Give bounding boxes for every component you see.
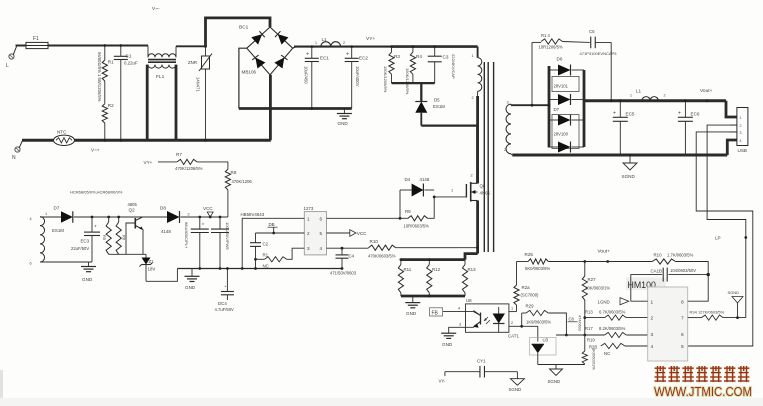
wire opto anode up (509, 311, 517, 313)
svg-text:NTC: NTC (57, 130, 67, 135)
shunt regulator U3 TL431 (522, 325, 538, 327)
resistor R9 gate (399, 217, 402, 220)
wire Vout to connector (726, 101, 737, 117)
ground SGND output (629, 155, 631, 163)
svg-text:C2: C2 (263, 242, 269, 247)
svg-text:*: * (202, 223, 204, 229)
svg-text:1: 1 (472, 54, 474, 58)
wire pin6 gate drive (327, 217, 401, 219)
svg-text:28V100: 28V100 (554, 132, 569, 137)
svg-text:1273: 1273 (304, 206, 314, 211)
resistor R1 (104, 46, 106, 61)
connector USB (737, 108, 748, 146)
svg-text:4: 4 (320, 246, 323, 251)
wire thick top loop to bridge (206, 18, 271, 47)
svg-text:2: 2 (307, 231, 310, 236)
capacitor EC4 68u (198, 216, 201, 219)
inductor L1 input (321, 42, 341, 47)
svg-text:+: + (678, 111, 681, 117)
svg-text:GND: GND (338, 121, 349, 126)
svg-text:MB106: MB106 (242, 70, 257, 75)
wire data line D- to feedback (688, 132, 753, 346)
svg-text:471P3100EVNCAP5: 471P3100EVNCAP5 (580, 51, 618, 56)
svg-text:4: 4 (30, 217, 32, 221)
wire secondary ground bus (512, 154, 727, 157)
svg-text:R17: R17 (585, 326, 593, 331)
transistor Q8 MOSFET 4N65 (465, 184, 467, 198)
svg-text:EC1: EC1 (320, 56, 329, 61)
diode D5 ES1M clamp (415, 102, 427, 113)
wire data line D+ to feedback (707, 125, 746, 318)
resistor R13 (462, 265, 467, 293)
ground GND sense (412, 296, 414, 303)
svg-text:R29: R29 (526, 304, 535, 309)
svg-text:U8: U8 (466, 298, 472, 303)
svg-text:471/50V/0603: 471/50V/0603 (330, 271, 357, 276)
wire sense bottom bus (401, 295, 465, 298)
wire sense top bus (401, 258, 465, 261)
svg-text:*: * (95, 225, 97, 231)
svg-text:R13: R13 (468, 267, 477, 272)
ground GND aux (88, 262, 90, 267)
svg-text:C4: C4 (349, 254, 355, 259)
svg-text:R7: R7 (176, 152, 182, 157)
svg-text:R2a: R2a (522, 285, 531, 290)
svg-text:6: 6 (320, 216, 323, 221)
svg-text:104/0603/50V: 104/0603/50V (670, 268, 696, 273)
capacitor EC6 (684, 99, 687, 102)
wire rectifier anode bus (548, 66, 551, 148)
svg-text:4N65: 4N65 (480, 191, 491, 196)
svg-text:VY+: VY+ (366, 36, 375, 42)
svg-text:470K/1206: 470K/1206 (232, 179, 253, 184)
svg-text:D7: D7 (54, 206, 60, 211)
svg-text:7: 7 (681, 316, 684, 322)
svg-text:R25: R25 (525, 252, 534, 257)
svg-text:D5: D5 (434, 98, 440, 103)
svg-text:R8: R8 (231, 170, 237, 175)
resistor R27 (583, 260, 586, 263)
svg-text:SGND: SGND (622, 174, 636, 179)
svg-text:HB58V4643: HB58V4643 (241, 212, 265, 217)
svg-text:22uF/50V: 22uF/50V (71, 246, 89, 251)
wire DC+ rail (293, 47, 296, 49)
svg-text:150K/1206/5%: 150K/1206/5% (383, 66, 388, 93)
capacitor C2 comp (255, 233, 257, 243)
ground GND opto (449, 327, 466, 333)
svg-text:VCC: VCC (203, 206, 213, 211)
wire opto anode to R26 (516, 305, 518, 312)
wire R5 R6 base node (109, 253, 146, 255)
svg-text:R11: R11 (404, 267, 412, 272)
terminal L (9, 54, 14, 59)
capacitor EC3 (91, 216, 94, 219)
svg-text:Z1: Z1 (149, 259, 155, 264)
wire gate (434, 196, 466, 198)
wire drain (476, 126, 479, 184)
svg-text:VY+: VY+ (144, 160, 153, 165)
svg-text:D7: D7 (554, 107, 560, 112)
transformer T1 core (483, 62, 485, 252)
svg-text:R1: R1 (263, 253, 269, 258)
svg-text:56/50Ω/5% 1 5W/1206/5%: 56/50Ω/5% 1 5W/1206/5% (97, 52, 102, 102)
svg-text:2: 2 (511, 321, 513, 325)
svg-text:R13: R13 (585, 310, 593, 315)
svg-text:NC: NC (263, 263, 269, 268)
svg-text:Vout+: Vout+ (700, 88, 713, 94)
svg-text:3: 3 (740, 131, 742, 135)
resistor R10 CS filter (369, 245, 396, 250)
resistor R10 feedback upper (652, 259, 675, 264)
svg-text:CAT1: CAT1 (508, 334, 519, 339)
svg-text:D6: D6 (557, 57, 563, 62)
svg-text:10uF/400V: 10uF/400V (355, 66, 360, 87)
svg-text:2: 2 (471, 174, 473, 178)
ground SGND TL431 (555, 365, 557, 370)
wire opto cathode out (509, 325, 522, 327)
svg-text:USB: USB (738, 148, 747, 153)
svg-text:10R/0603/5%: 10R/0603/5% (404, 224, 430, 229)
svg-text:R10: R10 (370, 239, 379, 244)
svg-text:1: 1 (630, 94, 632, 98)
zener Z1 18V (142, 258, 151, 265)
transformer T1 primary winding (477, 47, 479, 58)
svg-text:+: + (306, 52, 309, 58)
svg-text:SGND: SGND (548, 379, 561, 384)
wire comp to divider (566, 334, 584, 336)
svg-text:GND: GND (82, 277, 93, 282)
capacitor C5 secondary snubber (563, 41, 590, 44)
svg-text:474/0603: 474/0603 (578, 315, 582, 331)
diode output rectifier 3 (549, 119, 558, 121)
optocoupler U8 (466, 304, 509, 332)
svg-text:BC1: BC1 (239, 25, 249, 31)
wire pin2 (256, 232, 305, 234)
wire U3 anode to SGND (538, 364, 585, 366)
svg-text:5K0/0603/5%: 5K0/0603/5% (525, 266, 550, 271)
svg-text:2: 2 (740, 124, 742, 128)
red watermark line 1 (655, 366, 750, 382)
resistor R4 (412, 45, 415, 48)
svg-text:FL1: FL1 (156, 74, 165, 80)
svg-text:2: 2 (343, 41, 345, 45)
resistor R28 lower divider (584, 335, 586, 351)
resistor R6 (117, 216, 120, 219)
svg-text:ZNR: ZNR (188, 60, 197, 65)
capacitor C1 (120, 46, 122, 57)
capacitor EC1 (310, 45, 313, 48)
diode D4 4148 gate (399, 190, 401, 218)
svg-text:R5: R5 (102, 235, 107, 241)
svg-text:3: 3 (651, 332, 654, 338)
diode D6 output rectifier 1 (549, 69, 558, 71)
resistor R8 startup (227, 162, 229, 169)
svg-text:14N471: 14N471 (196, 77, 201, 92)
inductor L1 output (642, 97, 658, 101)
svg-text:L1: L1 (636, 89, 642, 94)
svg-text:8: 8 (681, 300, 684, 306)
svg-text:10uF/450: 10uF/450 (304, 66, 309, 84)
svg-text:2: 2 (651, 316, 654, 322)
svg-text:68U/400C/PL+: 68U/400C/PL+ (184, 222, 189, 249)
svg-text:1: 1 (651, 300, 654, 306)
svg-text:LP: LP (715, 236, 721, 241)
svg-text:EC6: EC6 (691, 112, 700, 117)
svg-text:4: 4 (651, 344, 654, 350)
svg-text:8.2K/0603/5%: 8.2K/0603/5% (599, 326, 626, 331)
svg-text:3: 3 (507, 101, 509, 105)
wire pin1 to ground (242, 218, 304, 268)
wire rectifier cathode bus (583, 70, 586, 147)
svg-text:R9: R9 (405, 209, 411, 214)
svg-text:6: 6 (30, 262, 32, 266)
ground GND primary (191, 269, 193, 277)
svg-text:R4: R4 (416, 54, 422, 59)
resistor R26 (514, 285, 519, 305)
svg-text:150K/1206/5%: 150K/1206/5% (405, 68, 410, 95)
resistor R12 (428, 258, 431, 261)
IC HM100 (626, 278, 666, 291)
svg-text:R1: R1 (108, 60, 114, 65)
diode output rectifier 4 (549, 146, 558, 148)
wire pin1 with 1GND flag (631, 300, 648, 302)
svg-text:ES1M: ES1M (433, 104, 445, 109)
wire AC top bus left (16, 45, 149, 47)
svg-text:2: 2 (472, 96, 474, 100)
svg-text:1: 1 (307, 216, 310, 221)
svg-text:+: + (346, 52, 349, 58)
svg-text:1K9/0603/5%: 1K9/0603/5% (526, 320, 551, 325)
svg-text:1.7K/0603/5%: 1.7K/0603/5% (667, 253, 694, 258)
svg-text:470K/0603/5%: 470K/0603/5% (368, 254, 396, 259)
capacitor C3 (433, 45, 436, 48)
svg-text:R12: R12 (432, 267, 441, 272)
resistor R11 (400, 258, 403, 261)
svg-text:10K/0603/1%: 10K/0603/1% (585, 286, 610, 291)
svg-text:2: 2 (504, 148, 506, 152)
wire pin4 CS row (327, 247, 369, 249)
svg-text:6: 6 (681, 332, 684, 338)
svg-text:1: 1 (511, 307, 513, 311)
svg-text:Vout+: Vout+ (598, 249, 611, 255)
node divider FB2 (583, 316, 586, 319)
svg-text:SGND: SGND (509, 387, 522, 392)
wire source to sense (476, 201, 479, 254)
svg-text:VY-: VY- (439, 379, 446, 384)
resistor R3 (390, 45, 393, 48)
svg-text:D4: D4 (405, 177, 411, 182)
wire Z1 to ground bus (146, 269, 177, 282)
svg-text:*: * (225, 285, 227, 290)
bridge rectifier BC1 MB106 (247, 27, 293, 75)
resistor R5 (107, 216, 110, 219)
svg-text:100U/50V/PW5: 100U/50V/PW5 (225, 222, 230, 250)
wire switch node (421, 124, 477, 126)
capacitor EC4 4.7uF (226, 269, 228, 289)
varistor ZNR (204, 45, 207, 48)
svg-text:4.7uF/50V: 4.7uF/50V (215, 307, 235, 312)
diode D8 4148 (167, 211, 180, 223)
wire pin5 VCC flag (327, 232, 350, 234)
node divider FB3 (583, 334, 586, 337)
svg-text:R3: R3 (394, 54, 400, 59)
svg-text:2: 2 (188, 213, 190, 217)
wire aux top rail (40, 216, 61, 218)
svg-text:4: 4 (740, 139, 742, 143)
svg-text:18V: 18V (148, 267, 156, 272)
wire U3 ref (556, 334, 585, 336)
svg-text:1: 1 (740, 116, 742, 120)
wire primary ground bus (177, 268, 343, 270)
wire aux bottom (40, 261, 92, 263)
svg-text:1: 1 (45, 212, 47, 216)
wire FB to opto (443, 311, 466, 313)
svg-text:DB: DB (269, 222, 275, 227)
svg-text:HCR68/05/9%,HCR68/06/9%: HCR68/05/9%,HCR68/06/9% (70, 190, 123, 195)
svg-text:1K/0603/1%: 1K/0603/1% (592, 348, 597, 370)
svg-text:Q8: Q8 (480, 184, 486, 189)
wire DC- rail (239, 107, 352, 110)
diode D7 aux rectifier ES1M (61, 211, 73, 223)
package box 28V100 (552, 115, 579, 149)
svg-text:WWW.JTMIC.COM: WWW.JTMIC.COM (654, 385, 752, 399)
svg-text:10R1206/5%: 10R1206/5% (539, 45, 563, 50)
svg-text:ES1M: ES1M (52, 228, 64, 233)
svg-text:L: L (6, 63, 9, 69)
svg-text:3: 3 (459, 323, 461, 327)
resistor R14 secondary snubber (531, 42, 533, 105)
svg-text:EC2: EC2 (359, 56, 368, 61)
svg-text:D8: D8 (160, 206, 166, 211)
svg-text:222/4KV/CAP: 222/4KV/CAP (451, 54, 456, 79)
resistor R2 (104, 81, 106, 104)
svg-text:6.7K/0603/5%: 6.7K/0603/5% (599, 310, 626, 315)
svg-text:1GND: 1GND (598, 300, 610, 305)
svg-text:1: 1 (315, 41, 317, 45)
svg-text:FB: FB (432, 310, 439, 316)
svg-text:+: + (613, 111, 616, 117)
resistor R7 startup (158, 161, 177, 163)
svg-text:R27: R27 (588, 277, 597, 282)
svg-text:Q2: Q2 (129, 208, 136, 213)
svg-text:CA1B: CA1B (651, 269, 663, 274)
svg-text:C1: C1 (126, 54, 132, 59)
svg-text:R2: R2 (108, 103, 114, 108)
svg-text:EC3: EC3 (81, 239, 90, 244)
svg-text:DC4: DC4 (218, 301, 227, 306)
svg-text:C8: C8 (569, 317, 575, 322)
wire bridge bottom to AC bus (269, 75, 272, 141)
svg-text:CY1: CY1 (477, 359, 486, 364)
wire AC bottom bus (22, 139, 271, 142)
thermistor NTC (54, 135, 75, 145)
resistor R25 (528, 259, 548, 264)
svg-text:SGND: SGND (728, 290, 740, 295)
resistor R13 to pin2 (585, 317, 605, 319)
net label FB (430, 308, 443, 316)
svg-text:4: 4 (458, 307, 460, 311)
capacitor EC2 (350, 45, 353, 48)
wire feedback top row (585, 261, 653, 263)
wire bridge minus to DC- rail (239, 48, 247, 108)
svg-text:VCC: VCC (357, 231, 367, 236)
svg-text:C5: C5 (589, 29, 595, 34)
svg-text:NC: NC (604, 351, 610, 356)
svg-text:U3: U3 (543, 338, 549, 343)
wire output rail Vout (584, 99, 726, 102)
ground SGND CY1 (516, 372, 518, 379)
svg-text:EC5: EC5 (626, 112, 635, 117)
capacitor EC5 (619, 99, 622, 102)
resistor R29 comp (521, 313, 523, 326)
fuse F1 (26, 42, 48, 48)
svg-text:1: 1 (451, 189, 453, 193)
terminal N (15, 147, 20, 152)
package box 28V101 (552, 77, 579, 92)
svg-text:GND: GND (442, 342, 453, 347)
svg-text:5: 5 (681, 344, 684, 350)
svg-text:R10: R10 (654, 253, 663, 258)
svg-text:470K/1206/5%: 470K/1206/5% (175, 166, 203, 171)
capacitor C2 100u (219, 216, 222, 219)
resistor R19 NC to pin4 (601, 343, 625, 348)
diode output rectifier 2 (549, 99, 558, 101)
svg-text:4148: 4148 (420, 177, 430, 182)
svg-text:2: 2 (664, 94, 666, 98)
capacitor C4 (341, 247, 344, 250)
ground GND under EC2 (343, 109, 345, 114)
svg-text:R19: R19 (587, 338, 595, 343)
common mode choke FL1 (147, 46, 149, 58)
svg-text:GND: GND (185, 285, 196, 290)
svg-text:V~-: V~- (152, 6, 160, 12)
svg-text:L1: L1 (322, 37, 328, 42)
svg-text:V~+: V~+ (91, 148, 100, 153)
resistor R34 pin7 (688, 317, 702, 319)
svg-text:4148: 4148 (161, 229, 171, 234)
svg-text:5: 5 (320, 231, 323, 236)
svg-text:(SC7000): (SC7000) (521, 293, 540, 298)
svg-text:0.22uF: 0.22uF (124, 61, 138, 66)
capacitor CA1B (631, 275, 662, 302)
svg-text:F1: F1 (33, 36, 39, 42)
svg-text:3: 3 (307, 246, 310, 251)
resistor R17 to pin3 (585, 334, 605, 336)
svg-text:GND: GND (406, 311, 417, 316)
svg-text:C3: C3 (443, 55, 449, 60)
svg-text:4805: 4805 (128, 202, 138, 207)
svg-text:R34 127K/0603/5%: R34 127K/0603/5% (690, 310, 725, 315)
wire snubber bottom (392, 82, 435, 84)
svg-text:N: N (12, 155, 16, 161)
resistor R1 comp (254, 258, 257, 261)
svg-text:R1 4: R1 4 (541, 33, 551, 38)
svg-text:28V101: 28V101 (554, 84, 569, 89)
